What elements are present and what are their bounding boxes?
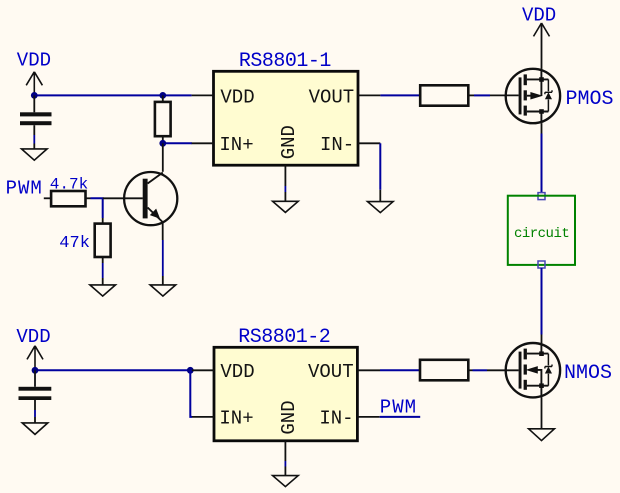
U1 pin VOUT [309, 86, 381, 108]
wire U1 VOUT to R4 [380, 94, 420, 96]
node square (circuit top pin) [538, 193, 545, 200]
power flag VDD (top-right) [522, 4, 556, 69]
wire NMOS source to ground [541, 397, 543, 428]
capacitor C2 [19, 370, 52, 423]
wire VDD rail bottom (to U2 VDD) [35, 369, 192, 371]
op-amp U1 RS8801-1 body [214, 50, 359, 165]
wire R4 to PMOS gate [468, 94, 518, 96]
wire VDD rail top (to U1 VDD) [34, 94, 191, 96]
svg-text:VDD: VDD [220, 86, 254, 108]
U1 pin IN+ [192, 134, 254, 156]
ground (U1 IN-) [368, 202, 394, 213]
wire R3 to ground [102, 257, 104, 285]
wire circuit block to NMOS drain [541, 268, 543, 343]
wire U2 IN- (PWM net) [380, 416, 421, 418]
svg-text:RS8801-2: RS8801-2 [238, 326, 330, 349]
svg-text:PMOS: PMOS [566, 88, 614, 111]
svg-text:VDD: VDD [220, 361, 254, 383]
svg-text:IN-: IN- [319, 408, 353, 430]
svg-text:VDD: VDD [17, 50, 51, 72]
junction dot at U2 VDD branch [187, 367, 194, 374]
ground (below R3) [90, 285, 116, 296]
transistor Q1 (NPN) [124, 172, 177, 225]
svg-text:IN+: IN+ [219, 134, 253, 156]
ground (below C2) [22, 423, 48, 435]
svg-text:circuit: circuit [514, 226, 569, 242]
junction dot at R1 bottom [159, 140, 166, 147]
svg-text:GND: GND [278, 400, 300, 434]
svg-text:IN-: IN- [320, 134, 354, 156]
junction dot at C2 top [32, 367, 39, 374]
power flag VDD (top-left) [17, 50, 51, 96]
U2 pin IN- [319, 408, 379, 430]
ground (below Q1 emitter) [150, 285, 176, 296]
resistor R3 47k [59, 224, 110, 257]
ground (NMOS source) [529, 429, 555, 441]
transistor M1 PMOS [506, 69, 614, 123]
U1 pin IN- [320, 134, 380, 156]
svg-text:NMOS: NMOS [564, 362, 612, 385]
U2 pin VDD [192, 361, 255, 383]
svg-text:VDD: VDD [16, 326, 50, 348]
resistor R4 (PMOS gate, unlabeled) [420, 85, 468, 105]
U2 pin VOUT [308, 361, 380, 383]
wire U1 IN- to ground [379, 143, 381, 201]
svg-text:47k: 47k [59, 234, 90, 253]
svg-text:PWM: PWM [6, 178, 43, 200]
U2 pin IN+ [192, 408, 254, 430]
ground (U1 GND) [273, 201, 299, 212]
U1 pin GND [278, 125, 300, 201]
ground (U2 GND) [273, 476, 299, 487]
svg-text:PWM: PWM [380, 397, 417, 419]
wire U2 VOUT to R5 [380, 369, 420, 371]
transistor M2 NMOS [506, 343, 612, 397]
svg-text:VDD: VDD [522, 4, 556, 26]
node square (circuit bottom pin) [538, 261, 545, 268]
resistor R5 (NMOS gate, unlabeled) [420, 360, 468, 381]
ground (below C1) [22, 149, 48, 160]
svg-text:RS8801-1: RS8801-1 [239, 50, 332, 73]
junction dot at R top [159, 92, 166, 99]
wire R5 to NMOS gate [468, 369, 518, 371]
wire emitter to ground [162, 222, 164, 285]
power flag VDD (bottom-left) [16, 326, 50, 370]
svg-text:GND: GND [278, 125, 300, 159]
svg-text:IN+: IN+ [219, 408, 253, 430]
wire branch to U2 IN+ [190, 370, 192, 417]
svg-text:VOUT: VOUT [308, 361, 354, 383]
wire R2 to Q1 base node [86, 198, 143, 223]
circuit block [508, 196, 575, 265]
wire IN+ row (R1 bottom to U1 IN+) [163, 142, 192, 144]
junction dot at C1 top [31, 92, 38, 99]
resistor R1 (vertical, unlabeled) [155, 95, 171, 143]
U2 pin GND [278, 400, 300, 475]
wire PWM to R2 [44, 197, 51, 199]
svg-text:VOUT: VOUT [309, 86, 355, 108]
U1 pin VDD [192, 86, 255, 108]
wire PMOS drain to circuit block [541, 123, 543, 192]
op-amp U2 RS8801-2 body [214, 326, 357, 441]
svg-text:4.7k: 4.7k [50, 176, 88, 194]
wire collector (down to Q1) [162, 143, 164, 172]
resistor R2 4.7k [50, 176, 88, 207]
capacitor C1 [20, 95, 52, 148]
